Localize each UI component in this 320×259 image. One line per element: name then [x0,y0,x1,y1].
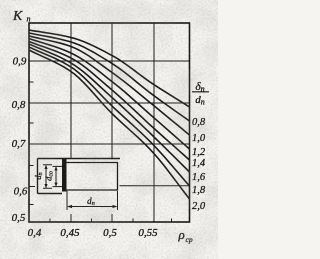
inset box top/left/bottomleft [38,159,121,194]
curve 1,2 [29,39,190,150]
inset dim ticks arrow1 [43,165,52,188]
hgrid 0,7 [29,143,190,145]
plot border [29,23,190,222]
inset dn extension lines [67,191,118,210]
inset bg [38,159,117,194]
hgrid 0,8 [29,102,190,104]
inset dn dim line [68,206,117,208]
inset hole rect [67,163,118,191]
inset diagram [33,159,120,211]
curve 0,8 [29,33,190,121]
curve 0,6 [29,30,190,107]
curve 1,4 [29,42,190,161]
y minor ticks [29,82,34,205]
inset arrow2 [55,167,57,186]
curve 2,0 [29,50,190,199]
curve 1,0 [29,36,190,135]
inset arrow1 [45,165,47,187]
x minor ticks [50,219,172,223]
vgrid 0,45 [70,23,72,222]
curve 1,6 [29,44,190,172]
curve 1,8 [29,47,190,186]
vgrid 0,55 [153,23,155,222]
hgrid 0,6 [29,185,190,188]
inset plate bar [62,159,67,192]
vgrid 0,5 [111,23,113,222]
inset dim ticks arrow2 [53,166,63,186]
hgrid 0,9 [29,60,190,62]
paper grain [0,0,1,1]
